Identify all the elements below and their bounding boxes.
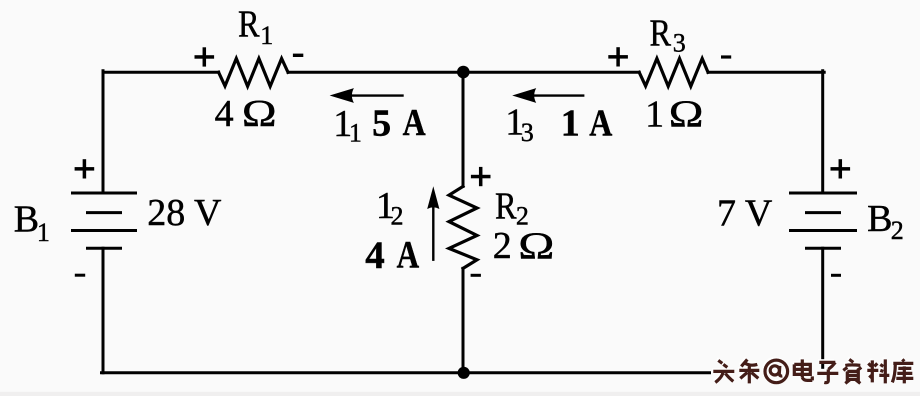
- svg-text:Ω: Ω: [669, 93, 704, 135]
- current arrow I1: [330, 88, 404, 103]
- svg-text:Ω: Ω: [518, 225, 554, 267]
- svg-text:2: 2: [493, 225, 512, 267]
- svg-text:A: A: [397, 233, 420, 276]
- bottom gray band: [0, 392, 920, 396]
- wire left vertical lower: [102, 248, 105, 373]
- svg-text:1: 1: [37, 218, 50, 247]
- minus sign R3: [721, 55, 731, 58]
- svg-text:1: 1: [561, 102, 580, 144]
- battery B2 plate long bottom: [791, 229, 856, 232]
- svg-text:R: R: [650, 12, 672, 54]
- svg-text:3: 3: [521, 118, 534, 147]
- resistor R1: [219, 59, 288, 87]
- wire left vertical upper: [102, 71, 105, 193]
- plus sign B2: [831, 159, 851, 178]
- wire top left segment: [103, 71, 219, 74]
- wire right vertical lower: [821, 248, 824, 373]
- svg-text:A: A: [589, 102, 613, 144]
- minus sign B1: [75, 274, 85, 277]
- plus sign B1: [75, 159, 95, 178]
- wire middle vertical lower: [462, 268, 465, 372]
- resistor R2: [449, 186, 477, 268]
- plus sign R3: [608, 47, 628, 66]
- plus sign R2: [471, 167, 491, 186]
- svg-text:4: 4: [215, 93, 234, 135]
- node junction top: [457, 66, 470, 79]
- svg-text:1: 1: [260, 21, 273, 50]
- wire top middle segment: [288, 71, 639, 74]
- resistor R3: [639, 59, 708, 87]
- svg-text:1: 1: [645, 93, 664, 135]
- current arrow I3: [512, 88, 584, 103]
- wire right vertical upper: [821, 71, 824, 193]
- battery B1 plate short bottom: [88, 247, 121, 250]
- svg-text:R: R: [238, 3, 260, 45]
- svg-text:R: R: [495, 185, 517, 227]
- svg-text:2: 2: [891, 216, 904, 245]
- minus sign B2: [831, 274, 841, 277]
- current arrow I2: [427, 186, 439, 261]
- wire top right segment: [708, 71, 824, 74]
- minus sign R2: [471, 274, 481, 277]
- svg-text:3: 3: [673, 29, 686, 58]
- plus sign R1: [195, 47, 215, 66]
- svg-text:28 V: 28 V: [147, 192, 222, 234]
- battery B1 plate short: [88, 211, 121, 214]
- battery B2 plate long top: [791, 192, 856, 195]
- svg-text:4: 4: [365, 234, 385, 277]
- svg-text:A: A: [403, 101, 427, 143]
- battery B2 plate short bottom: [807, 247, 840, 250]
- battery B1 plate long bottom: [73, 229, 136, 232]
- svg-text:2: 2: [391, 201, 404, 230]
- svg-text:Ω: Ω: [242, 93, 277, 135]
- svg-text:7 V: 7 V: [717, 193, 773, 235]
- svg-text:5: 5: [372, 102, 391, 144]
- svg-text:B: B: [14, 198, 39, 240]
- svg-text:1: 1: [349, 118, 362, 147]
- node junction bottom: [458, 367, 470, 379]
- battery B2 plate short: [807, 211, 840, 214]
- battery B1 plate long top: [73, 192, 136, 195]
- svg-text:B: B: [867, 198, 892, 240]
- wire middle vertical upper: [462, 72, 465, 186]
- minus sign R1: [293, 54, 303, 57]
- wire bottom horizontal: [102, 371, 823, 374]
